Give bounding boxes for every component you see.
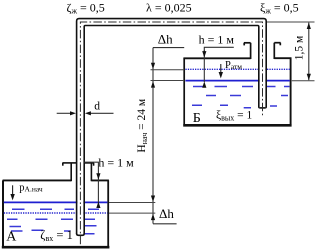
svg-text:1,5 м: 1,5 м xyxy=(293,35,305,60)
H dimension vertical line (shared with both delta-h) xyxy=(152,48,154,224)
svg-text:Б: Б xyxy=(193,111,201,126)
svg-text:рА.нач: рА.нач xyxy=(19,182,43,193)
extension line: tank B final level xyxy=(151,69,185,71)
pipe inner wall xyxy=(84,26,260,235)
extension line: tank A initial level xyxy=(109,202,155,204)
svg-text:А: А xyxy=(6,230,17,245)
svg-text:Δh: Δh xyxy=(158,31,173,46)
svg-text:Ратм: Ратм xyxy=(225,60,242,71)
pipe mouth (tank B) rounded end xyxy=(260,107,265,109)
arrowhead up at tank B solid level (H top) xyxy=(151,81,155,87)
tank A water dashes xyxy=(7,209,99,234)
upper delta-h leader xyxy=(153,47,184,49)
tank B (upper right reservoir) walls xyxy=(183,58,291,125)
pipe axis centerline (dash-dot) xyxy=(80,22,262,244)
p_A,nach arrow and label (tank A) xyxy=(12,185,14,194)
svg-text:Ннач = 24 м: Ннач = 24 м xyxy=(136,98,149,152)
tank A water: final level (dotted blue) xyxy=(4,212,108,214)
lower delta-h foot xyxy=(153,223,177,225)
svg-text:d: d xyxy=(94,100,100,112)
svg-text:h = 1 м: h = 1 м xyxy=(199,32,235,46)
arrowhead down at tank A solid level (H bottom) xyxy=(151,196,155,202)
arrowhead down at tank B dotted level xyxy=(151,63,155,69)
extension line: tank A final level xyxy=(109,212,155,214)
1,5 m dimension (right) xyxy=(267,21,315,23)
tank B water dashes xyxy=(192,87,290,108)
svg-text:h = 1 м: h = 1 м xyxy=(98,156,134,170)
h = 1 m dimension (tank B) xyxy=(204,47,234,56)
tank B water: final level (dotted blue) xyxy=(185,68,289,70)
p_atm arrow and label (tank B) xyxy=(220,64,222,73)
svg-text:ζвх = 1: ζвх = 1 xyxy=(40,228,73,243)
dimension d (pipe diameter) arrows xyxy=(57,112,114,114)
tank B water: initial level (solid blue) xyxy=(185,80,289,82)
tank A neck (pipe entry collar) xyxy=(62,163,94,181)
h = 1 m dimension (tank A) xyxy=(84,162,98,203)
tank B pipe-entry stubs (collar) xyxy=(244,43,281,59)
svg-text:λ = 0,025: λ = 0,025 xyxy=(146,1,192,15)
tank A water: initial level (solid blue) xyxy=(4,201,108,203)
extension line: tank B initial level xyxy=(151,80,185,82)
arrowhead up at tank A dotted level xyxy=(151,214,155,220)
pipe mouth (tank A) rounded end xyxy=(77,234,85,236)
pipe white interior xyxy=(77,19,265,234)
tank A (lower left reservoir) walls xyxy=(2,180,110,247)
svg-text:Δh: Δh xyxy=(159,206,174,221)
pipe outer wall xyxy=(77,19,267,234)
